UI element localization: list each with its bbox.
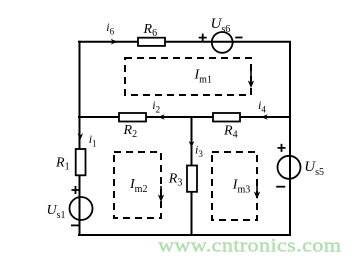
minus sign of U_s6 [235, 37, 242, 39]
current arrow i3 [189, 141, 195, 148]
wire bottom [78, 234, 291, 236]
voltage source U_s6 [212, 32, 233, 53]
wire right vertical [289, 41, 291, 236]
mesh loop I_m3 (dashed) [212, 152, 257, 220]
wire middle vertical [191, 117, 193, 236]
resistor R4 [213, 113, 240, 122]
mesh current arrow of I_m1 [248, 71, 254, 88]
current arrow i6 [111, 39, 118, 45]
resistor R6 [138, 38, 165, 46]
wire top (left corner to right corner) [78, 41, 291, 43]
voltage source U_s1 [70, 197, 93, 220]
wire left vertical [79, 41, 81, 236]
plus sign of U_s5 [278, 144, 286, 152]
resistor R1 [76, 149, 86, 175]
plus sign of U_s1 [72, 186, 80, 194]
plus sign of U_s6 [199, 34, 207, 42]
wire middle horizontal [78, 116, 291, 118]
voltage source U_s5 [278, 156, 301, 179]
mesh loop I_m2 (dashed) [114, 152, 161, 218]
current arrow i1 [78, 133, 84, 140]
resistor R3 [187, 166, 197, 192]
mesh current arrow of I_m2 [158, 186, 164, 202]
current arrow i4 [261, 114, 268, 120]
mesh current arrow of I_m3 [254, 183, 260, 199]
mesh loop I_m1 (dashed) [125, 58, 251, 95]
minus sign of U_s1 [71, 224, 80, 226]
current arrow i2 [158, 114, 165, 120]
resistor R2 [119, 113, 146, 122]
svg-text:www.cntronics.com: www.cntronics.com [158, 236, 341, 256]
minus sign of U_s5 [276, 186, 285, 188]
